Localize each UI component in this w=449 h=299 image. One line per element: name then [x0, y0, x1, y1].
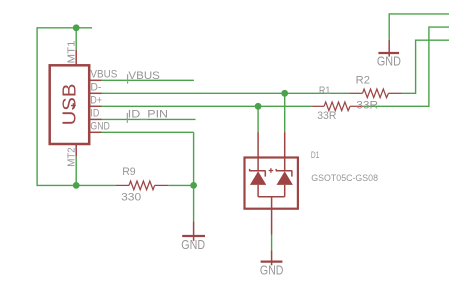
- resistor R1: [311, 102, 363, 111]
- wire net D+ from USB to R1: [102, 105, 311, 107]
- diode B cathode bar: [276, 170, 293, 172]
- wire net GND-left: top horizontal, left vertical, bottom horizontal run: [37, 28, 116, 186]
- svg-text:GSOT05C-GS08: GSOT05C-GS08: [311, 173, 378, 183]
- wire USB GND pin row: [102, 131, 194, 133]
- D1 internal plus mark: [269, 168, 274, 173]
- svg-text:GND: GND: [90, 121, 110, 133]
- svg-text:VBUS: VBUS: [128, 70, 160, 82]
- D1 pin 1 (left, from D+): [257, 132, 259, 171]
- diode B triangle: [277, 171, 293, 185]
- wire R1 output to right edge: [363, 27, 449, 106]
- pin D- stub: [89, 92, 102, 94]
- junction at MT1 top: [73, 24, 80, 31]
- pin VBUS stub: [89, 79, 102, 81]
- wire MT1 pin to top junction: [75, 28, 77, 50]
- wire D- drop to D1 pin 2: [284, 93, 286, 132]
- D1 internal bottom connector: [258, 196, 285, 198]
- svg-text:USB: USB: [59, 84, 80, 126]
- ground symbol top-right: [378, 40, 399, 57]
- wire GND vertical from USB GND pin down to GND symbol: [193, 132, 195, 221]
- svg-text:D+: D+: [90, 95, 102, 107]
- D1 pin 3 (bottom, GND): [271, 197, 273, 235]
- resistor R9: [116, 181, 169, 190]
- svg-text:ID: ID: [90, 108, 99, 120]
- svg-text:GND: GND: [377, 54, 401, 68]
- diode A cathode bar: [249, 170, 266, 172]
- junction D- / D1: [281, 90, 288, 97]
- wire net VBUS: [102, 79, 194, 81]
- wire R2 output to right edge: [402, 40, 449, 93]
- svg-text:D-: D-: [90, 82, 101, 94]
- diode A triangle: [250, 171, 266, 185]
- usb symbol plus mark: [71, 103, 76, 108]
- svg-text:R2: R2: [356, 75, 370, 87]
- wire D+ drop to D1 pin 1: [257, 106, 259, 132]
- pin GND stub: [89, 131, 102, 133]
- svg-text:GND: GND: [260, 264, 284, 278]
- svg-text:33R: 33R: [317, 110, 336, 122]
- svg-text:330: 330: [121, 192, 141, 204]
- TVS diode D1 box: [245, 158, 298, 209]
- svg-text:ID_PIN: ID_PIN: [128, 108, 168, 120]
- svg-text:VBUS: VBUS: [90, 69, 117, 81]
- pin D+ stub: [89, 105, 102, 107]
- junction D+ / D1: [255, 103, 262, 110]
- wire net ID_PIN: [102, 118, 196, 120]
- svg-text:33R: 33R: [356, 99, 378, 111]
- svg-text:R9: R9: [122, 166, 136, 178]
- label origin tick VBUS: [127, 74, 129, 83]
- junction R9 right / GND: [190, 182, 197, 189]
- pin ID stub: [89, 118, 102, 120]
- svg-text:MT2: MT2: [66, 147, 77, 167]
- wire net D- from USB to R2: [102, 92, 350, 94]
- wire D1 pin 3 to GND symbol: [271, 235, 273, 251]
- label origin tick ID_PIN: [126, 113, 128, 123]
- wire MT2 pin to bottom run: [75, 157, 77, 186]
- resistor R2: [350, 89, 403, 98]
- ground symbol bottom-center: [182, 221, 205, 241]
- D1 pin 2 (right, from D-): [284, 132, 286, 171]
- usb connector X1 body: [50, 65, 89, 144]
- pin MT1 stub: [75, 50, 77, 65]
- wire top-right GND net: [389, 14, 449, 40]
- pin MT2 stub: [75, 144, 77, 157]
- svg-text:D1: D1: [311, 150, 320, 161]
- wire R9 right lead to GND junction: [168, 184, 193, 186]
- diode A anode stem: [257, 185, 259, 197]
- svg-text:MT1: MT1: [66, 40, 77, 64]
- junction at MT2 bottom run: [73, 182, 80, 189]
- svg-text:R1: R1: [319, 85, 331, 97]
- ground symbol under D1: [261, 250, 283, 265]
- svg-text:GND: GND: [181, 238, 205, 252]
- diode B anode stem: [284, 185, 286, 197]
